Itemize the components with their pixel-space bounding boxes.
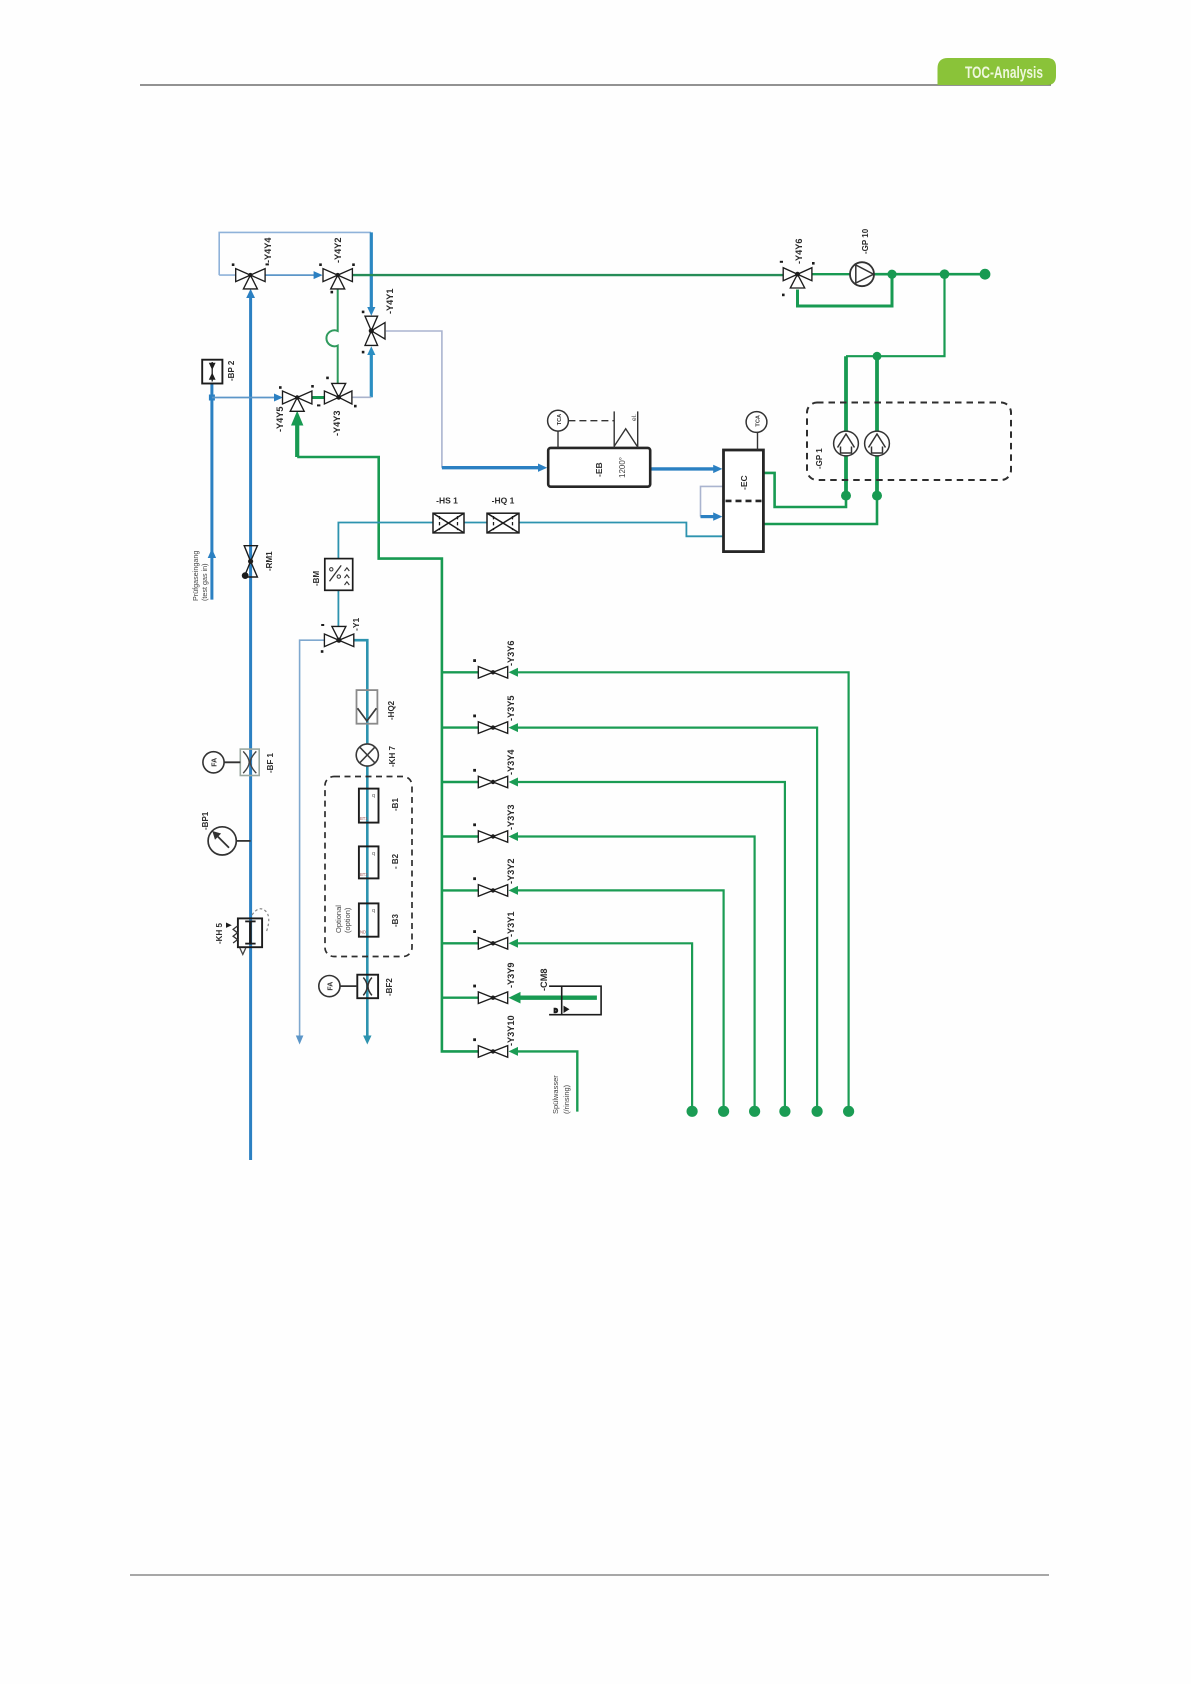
svg-text:el.: el. xyxy=(631,414,638,421)
valve -KH 7 xyxy=(356,744,378,766)
instrument FA circle for BF2 xyxy=(319,976,358,997)
node: green line terminus xyxy=(980,269,991,280)
node: terminus sample 1 xyxy=(687,1106,698,1117)
svg-text:- B2: - B2 xyxy=(391,853,400,869)
wire: light blue Y4Y4 right to Y4Y2 left with arrow xyxy=(265,274,315,276)
pump -GP 1 B xyxy=(865,431,890,456)
wire: blue up arrow into Y4Y4 bottom xyxy=(246,289,255,298)
wire: green Y4Y2 bottom down to Y4Y3 top with siphon loop xyxy=(326,289,337,383)
svg-text:BT2: BT2 xyxy=(360,872,368,877)
wire: lavender EC recirculation loop xyxy=(701,486,724,516)
wire: teal HQ1 to EC lower left xyxy=(519,523,724,537)
wire: thick blue EB right to EC with arrow xyxy=(650,467,715,470)
svg-text:1200°: 1200° xyxy=(618,457,627,478)
dashed group box -GP 1 xyxy=(807,403,1011,481)
reactor -EC xyxy=(724,412,767,552)
TOC-Analysis badge xyxy=(938,58,1057,85)
pump -GP 1 A xyxy=(834,431,859,456)
wire: blue vertical carrier line x250.6 from Y4Y4 down to 1160 xyxy=(249,297,252,1160)
wire: green manifold stub row Y3Y3 xyxy=(442,835,478,837)
wire: lavender Y4Y1 right to EB down xyxy=(386,331,442,468)
wire: green pump B to EC lower right port xyxy=(763,496,877,524)
svg-text:q: q xyxy=(372,851,375,857)
pump -GP 10 xyxy=(850,262,874,286)
filter -BF2 xyxy=(357,975,378,999)
svg-text:(/rinsing): (/rinsing) xyxy=(562,1084,571,1114)
wire: green manifold stub row Y3Y1 xyxy=(442,942,478,944)
svg-text:-HQ2: -HQ2 xyxy=(387,700,396,720)
sensor -B3 xyxy=(359,903,379,936)
wire: green pump A to EC upper right port xyxy=(763,473,846,507)
wire: green main Y4Y2 to Y4Y6 xyxy=(352,274,784,276)
svg-text:-Y4Y3: -Y4Y3 xyxy=(332,410,342,436)
svg-text:-Y1: -Y1 xyxy=(351,618,361,632)
sensor -B1 xyxy=(359,789,379,823)
valve -Y4Y3 (3-way top port) xyxy=(317,377,357,408)
wire: green manifold stub row Y3Y9 xyxy=(442,997,478,999)
instrument FA circle for BF1 xyxy=(203,752,240,773)
node: terminus sample 4 xyxy=(779,1106,790,1117)
node: terminus sample 3 xyxy=(749,1106,760,1117)
valve -Y3Y4 xyxy=(473,769,508,788)
solenoid block -HQ 1 xyxy=(487,513,519,533)
wire: light blue Y1 left branch down with arrow xyxy=(300,640,325,1036)
wire: green Y4Y6 to pump GP10 xyxy=(812,273,850,275)
svg-text:-HQ 1: -HQ 1 xyxy=(492,496,515,506)
valve -Y1 (3-way top port) xyxy=(321,624,354,653)
dashed optional group box xyxy=(325,777,412,957)
regulator -KH 5 xyxy=(226,909,269,955)
valve -Y3Y5 xyxy=(473,715,508,734)
valve -Y4Y4 (3-way) xyxy=(232,263,269,289)
svg-text:-Y3Y10: -Y3Y10 xyxy=(506,1015,516,1046)
svg-text:TCA: TCA xyxy=(755,415,761,427)
svg-text:-Y3Y3: -Y3Y3 xyxy=(506,804,516,830)
valve -Y4Y2 (3-way) xyxy=(319,263,355,293)
instrument -BP1 (pressure gauge) xyxy=(208,827,251,855)
valve -Y4Y6 (3-way) xyxy=(780,261,815,296)
svg-text:-BP 2: -BP 2 xyxy=(227,360,236,381)
wire: light blue top bypass rectangle Y4Y4 to Y4Y2 corner xyxy=(219,232,371,275)
wire: thick blue vertical x371 top to Y4Y1 with down arrow xyxy=(370,232,373,307)
wire: thick green through GP1 pump A xyxy=(844,356,848,495)
wire: blue up arrow on test gas line xyxy=(208,549,216,559)
wire: green manifold stub row Y3Y5 xyxy=(442,726,478,728)
svg-text:FA: FA xyxy=(328,982,335,991)
wire: thick blue re-entry into EC with arrow xyxy=(701,515,716,518)
wire: green pump GP10 to end xyxy=(874,273,985,276)
valve -Y3Y1 xyxy=(473,930,508,949)
furnace -EB xyxy=(548,410,651,486)
valve -RM1 (needle valve) xyxy=(242,546,258,579)
svg-text:(option): (option) xyxy=(343,907,352,933)
wire: green down from junction to GP1 header xyxy=(846,274,945,356)
svg-text:D: D xyxy=(554,1008,558,1014)
svg-text:-Y3Y4: -Y3Y4 xyxy=(506,749,516,775)
instrument -BP 2 (flow indicator) xyxy=(202,360,222,384)
valve -Y3Y10 xyxy=(473,1038,508,1057)
svg-text:Spülwasser: Spülwasser xyxy=(551,1075,560,1114)
svg-text:-Y4Y4: -Y4Y4 xyxy=(263,237,273,263)
svg-text:-Y3Y6: -Y3Y6 xyxy=(506,640,516,666)
svg-text:q: q xyxy=(372,908,375,914)
wire: blue branch to Y4Y5 with arrow xyxy=(212,397,276,399)
header rule xyxy=(140,84,1051,86)
svg-text:-B3: -B3 xyxy=(391,914,400,927)
node: junction green main xyxy=(940,269,950,279)
svg-text:-KH 7: -KH 7 xyxy=(388,746,397,767)
wire: thick green from CM8 into Y3Y9 with arrow xyxy=(519,996,597,1000)
wire: green manifold stub row Y3Y6 xyxy=(442,671,478,673)
svg-text:-RM1: -RM1 xyxy=(265,551,274,571)
node: terminus sample 5 xyxy=(812,1106,823,1117)
wire: blue up arrow into Y4Y1 bottom from Y4Y3 corner xyxy=(370,354,373,397)
wire: green manifold stub row Y3Y4 xyxy=(442,781,478,783)
svg-text:ND: ND xyxy=(360,930,366,935)
node: junction after GP10 xyxy=(887,270,896,279)
valve -Y4Y1 (3-way vertical) xyxy=(362,311,385,354)
mixer -BM xyxy=(325,559,353,591)
node: junction below GP1 pump B xyxy=(872,491,882,501)
node: junction test gas branch xyxy=(209,395,215,401)
svg-text:-GP 1: -GP 1 xyxy=(815,448,824,469)
svg-text:-CM8: -CM8 xyxy=(539,969,549,991)
wire: green sample line 1 with arrow into Y3Y1 xyxy=(517,943,693,1106)
node: junction below GP1 pump A xyxy=(841,491,851,501)
wire: green header Y4Y5 to manifold xyxy=(297,457,478,1051)
node: terminus sample 2 xyxy=(718,1106,729,1117)
svg-text:Optional: Optional xyxy=(334,905,343,933)
wire: thick green Y4Y5 to Y4Y3 xyxy=(312,396,325,399)
cylinder -CM8 xyxy=(549,986,601,1015)
wire: lavender Y4Y3 right to corner xyxy=(352,396,371,398)
svg-text:-EC: -EC xyxy=(739,475,749,490)
svg-text:-Y4Y5: -Y4Y5 xyxy=(275,406,285,432)
svg-text:-BF 1: -BF 1 xyxy=(266,752,275,773)
wire: teal HS1 to HQ1 xyxy=(464,522,487,524)
svg-text:-Y4Y6: -Y4Y6 xyxy=(794,238,804,264)
svg-text:-B1: -B1 xyxy=(391,798,400,811)
svg-text:Prüfgaseingang: Prüfgaseingang xyxy=(191,551,200,601)
valve -Y3Y3 xyxy=(473,823,508,842)
wire: green sample line 3 with arrow into Y3Y3 xyxy=(517,837,755,1107)
svg-text:FA: FA xyxy=(212,758,219,767)
svg-text:-EB: -EB xyxy=(594,462,604,477)
svg-text:-BF2: -BF2 xyxy=(385,978,394,996)
svg-text:-HS 1: -HS 1 xyxy=(436,496,458,506)
svg-text:-BP1: -BP1 xyxy=(201,811,210,830)
svg-text:-GP 10: -GP 10 xyxy=(861,228,870,254)
wire: green sample line 5 with arrow into Y3Y5 xyxy=(517,728,818,1106)
sensor -B2 xyxy=(359,846,379,878)
wire: green rinse water line into Y3Y10 xyxy=(517,1051,578,1111)
svg-text:-BM: -BM xyxy=(312,571,321,586)
wire: green sample line 6 with arrow into Y3Y6 xyxy=(517,672,849,1106)
wire: green sample line 4 with arrow into Y3Y4 xyxy=(517,782,785,1106)
solenoid block -HS 1 xyxy=(433,513,464,533)
wire: green manifold stub row Y3Y2 xyxy=(442,889,478,891)
svg-text:-KH 5: -KH 5 xyxy=(215,923,224,944)
valve -Y3Y9 xyxy=(473,985,508,1004)
wire: thick green arrow up into Y4Y5 bottom xyxy=(295,424,299,457)
wire: short light blue into Y4Y4 left xyxy=(219,274,236,276)
wire: thick blue into EB with arrow xyxy=(442,466,540,469)
svg-text:-Y3Y1: -Y3Y1 xyxy=(506,911,516,937)
svg-text:BT1: BT1 xyxy=(360,816,368,821)
wire: teal from BM up and right to HS1 xyxy=(338,523,433,559)
wire: blue test gas vertical x211.9 xyxy=(210,384,213,600)
svg-text:-Y3Y2: -Y3Y2 xyxy=(506,858,516,884)
node: junction GP1 header xyxy=(873,352,882,361)
valve -Y4Y5 (3-way) xyxy=(279,385,314,411)
svg-text:TCA: TCA xyxy=(557,414,563,426)
svg-text:(test gas in): (test gas in) xyxy=(200,563,209,601)
wire: green bypass loop around GP10 back to Y4Y6 xyxy=(798,274,893,306)
svg-text:-Y3Y9: -Y3Y9 xyxy=(506,962,516,988)
svg-text:-Y4Y1: -Y4Y1 xyxy=(385,288,395,314)
valve -Y3Y2 xyxy=(473,877,508,896)
check valve -HQ2 xyxy=(357,690,378,724)
wire: thick green through GP1 pump B xyxy=(875,356,879,495)
wire: teal Y1 right branch down through filters with arrow xyxy=(354,640,368,1036)
valve -Y3Y6 xyxy=(473,659,508,678)
node: terminus sample 6 xyxy=(843,1106,854,1117)
filter -BF1 xyxy=(240,749,259,775)
svg-text:TOC-Analysis: TOC-Analysis xyxy=(965,63,1043,82)
svg-text:q: q xyxy=(372,793,375,799)
footer rule xyxy=(130,1574,1049,1576)
wire: green sample line 2 with arrow into Y3Y2 xyxy=(517,890,724,1106)
wire: teal BM bottom to Y1 valve xyxy=(337,590,339,627)
svg-text:-Y4Y2: -Y4Y2 xyxy=(333,237,343,263)
svg-text:-Y3Y5: -Y3Y5 xyxy=(506,695,516,721)
